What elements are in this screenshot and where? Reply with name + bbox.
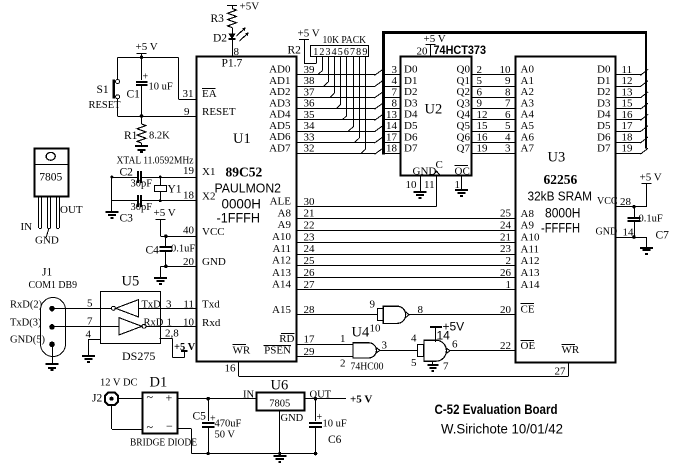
svg-text:D3: D3 [597,98,611,110]
svg-text:-FFFFH: -FFFFH [541,221,580,236]
wire AD1 from U1 to bus [297,86,375,88]
wire Q1 to A1 [471,86,516,88]
svg-text:RD: RD [279,333,294,345]
LED D2 [232,28,234,34]
ground U5 pin4 [82,355,95,357]
svg-text:P1.7: P1.7 [222,58,243,70]
svg-text:OUT: OUT [60,204,83,216]
wire EA pin31 [179,99,197,101]
svg-text:3: 3 [382,340,388,352]
svg-text:12 V DC: 12 V DC [100,378,138,389]
wire PSEN to U4a pin2 [297,356,352,358]
svg-text:9: 9 [370,299,376,311]
node GND(5) [49,342,55,348]
svg-text:AD2: AD2 [269,86,290,98]
inverter U5 TxD (points left) [116,300,139,317]
junction C1 bottom [140,114,144,118]
svg-text:23: 23 [500,243,512,255]
svg-text:2,8: 2,8 [165,328,179,340]
svg-text:U5: U5 [122,274,140,290]
wire Q4 to A4 [471,119,516,121]
wire D1 + out [178,398,256,400]
bus entry AD6 [375,137,383,143]
ground U6 [273,455,286,457]
wire J2 bottom [111,406,113,429]
resistor R1 [141,116,143,124]
ground J1 [46,363,59,365]
svg-text:AD6: AD6 [269,131,291,143]
wire AD6 from U1 to bus [297,142,375,144]
svg-text:4: 4 [411,333,417,345]
power +5V R2 [299,39,309,41]
svg-text:AD0: AD0 [269,64,291,76]
svg-text:8: 8 [392,98,398,110]
svg-text:3: 3 [505,143,511,155]
svg-text:C1: C1 [127,89,141,101]
sram U3 62256 box [516,57,616,363]
svg-text:BRIDGE DIODE: BRIDGE DIODE [130,437,197,448]
wire R2 pin3 to AD1 [328,57,330,82]
svg-text:A11: A11 [272,243,291,255]
svg-text:21: 21 [500,231,511,243]
svg-text:OC: OC [455,165,470,177]
svg-text:Q6: Q6 [457,131,471,143]
svg-text:15: 15 [477,120,489,132]
svg-text:74HC00: 74HC00 [351,362,384,373]
svg-text:U4: U4 [352,325,370,341]
svg-text:X2: X2 [202,190,215,202]
svg-text:J2: J2 [92,393,102,405]
svg-text:13: 13 [386,109,398,121]
wire AD4 from U1 to bus [297,119,375,121]
bus entry AD5 [375,126,383,132]
wire bus to U2 D4 [384,119,401,121]
svg-text:Q2: Q2 [457,86,470,98]
wire AD2 from U1 to bus [297,97,375,99]
svg-text:A12: A12 [272,255,291,267]
svg-text:30pF: 30pF [131,179,153,190]
svg-text:D6: D6 [404,131,418,143]
svg-text:2: 2 [477,64,483,76]
svg-text:C6: C6 [328,434,342,446]
wire +5V to VCC pin40 [160,219,162,236]
svg-text:8000H: 8000H [545,206,581,221]
svg-text:AD7: AD7 [269,143,291,155]
wire U3 D3 to bus [616,108,641,110]
svg-text:28: 28 [620,196,632,208]
svg-text:6: 6 [452,339,458,351]
ground R1 [135,145,148,147]
svg-text:X1: X1 [202,166,215,178]
gate U4a body [383,306,405,323]
svg-text:OE: OE [521,340,536,352]
svg-text:14: 14 [386,120,398,132]
wire Q0 to A0 [471,74,516,76]
svg-text:PSEN: PSEN [264,345,291,357]
svg-text:8.2K: 8.2K [149,131,170,142]
svg-text:−: − [166,419,173,433]
transistor 7805 package [35,149,69,197]
svg-text:0.1uF: 0.1uF [171,244,195,255]
wire AD5 from U1 to bus [297,131,375,133]
wire D2 to pin8 [232,39,234,56]
svg-text:8: 8 [234,46,240,58]
svg-text:C7: C7 [656,230,670,242]
svg-text:+5 V: +5 V [136,41,158,53]
svg-text:12: 12 [622,75,633,87]
svg-text:39: 39 [304,64,316,76]
wire A8 U1 to U3 [297,218,516,220]
wire bus to U2 D1 [384,86,401,88]
regulator U6 [257,393,305,411]
wire ALE to U2 pin11 [297,206,437,208]
capacitor C2 [137,171,139,183]
wire RD to U4a pin1 [297,344,352,346]
wire U3 D6 to bus [616,142,641,144]
svg-text:D4: D4 [597,109,611,121]
svg-text:A11: A11 [521,243,540,255]
svg-text:C4: C4 [146,245,160,257]
wire +5V stem [141,53,143,57]
wire U3 D7 to bus [616,153,641,155]
svg-text:GND: GND [202,256,226,268]
svg-text:32kB SRAM: 32kB SRAM [528,189,593,204]
wire WR rise to U3 pin27 [568,363,570,376]
ground U3 [640,247,653,249]
wire R2 pin4 to AD2 [334,57,336,93]
clock caret U2 [433,171,441,175]
bus entry AD1 [375,81,383,87]
svg-text:37: 37 [304,86,316,98]
svg-text:W.Sirichote 10/01/42: W.Sirichote 10/01/42 [441,421,563,437]
power +5V U4 [430,326,442,328]
svg-text:C-52 Evaluation Board: C-52 Evaluation Board [435,402,558,417]
wire A12 U1 to U3 [297,265,516,267]
svg-text:A4: A4 [521,109,535,121]
svg-text:WR: WR [233,344,251,356]
svg-text:10: 10 [406,179,418,191]
svg-text:22: 22 [304,219,315,231]
svg-text:32: 32 [304,143,315,155]
bus entry U3 D6 [640,137,648,143]
pin 4 U5 wire [89,339,101,341]
svg-text:S1: S1 [97,84,109,96]
svg-text:+5V: +5V [443,320,465,334]
svg-text:+5V: +5V [240,1,260,13]
wire A11 U1 to U3 [297,254,516,256]
wire U3 D2 to bus [616,97,641,99]
package legs [38,196,40,229]
resistor pack R2 [311,46,369,57]
pin 11 U2 stub (C) [436,176,438,207]
svg-text:Q7: Q7 [457,143,471,155]
power +5V R3 [227,5,237,7]
wire Q7 to A7 [471,153,516,155]
svg-text:5: 5 [87,298,93,310]
svg-text:ALE: ALE [270,196,292,208]
wire Q3 to A3 [471,108,516,110]
svg-text:19: 19 [477,143,489,155]
junction C5 bottom [207,452,210,455]
power +5V VCC [156,219,166,221]
svg-text:R1: R1 [124,130,138,142]
svg-text:15: 15 [622,98,634,110]
svg-text:12: 12 [477,109,488,121]
node RxD(2) [49,306,55,312]
ground xtal [105,211,118,213]
wire Q5 to A5 [471,131,516,133]
rs232 U5 DS275 box [101,292,161,344]
wire Q2 to A2 [471,97,516,99]
svg-text:17: 17 [622,120,634,132]
junction x1 left [111,176,114,179]
svg-text:D7: D7 [404,143,418,155]
wire bus to U2 D0 [384,74,401,76]
svg-text:6: 6 [505,109,511,121]
svg-text:RxD(2): RxD(2) [10,300,43,311]
svg-text:A9: A9 [521,220,535,232]
svg-text:D1: D1 [597,75,610,87]
svg-text:D1: D1 [404,75,417,87]
svg-text:R2: R2 [288,45,302,57]
svg-text:17: 17 [386,131,398,143]
wire bus to U2 D2 [384,97,401,99]
svg-text:9: 9 [477,98,483,110]
wire bus to U2 D6 [384,142,401,144]
svg-text:36: 36 [304,98,316,110]
svg-text:9: 9 [505,75,511,87]
svg-text:+5 V: +5 V [298,28,320,40]
wire OE from gate [450,350,516,352]
wire R2 pin2 to AD0 [322,57,324,71]
svg-text:D1: D1 [150,375,168,391]
wire R2 pin8 to AD6 [359,57,361,139]
svg-text:18: 18 [183,189,195,201]
wire gnd drop [160,266,162,278]
svg-text:U1: U1 [233,131,251,147]
wire TxD out to DB9 [52,308,111,310]
bus entry AD0 [375,69,383,75]
wire J2 to D1 [119,398,143,400]
wire R2 pin6 to AD4 [346,57,348,116]
svg-text:A14: A14 [272,279,291,291]
svg-text:31: 31 [183,88,194,100]
svg-text:1: 1 [340,333,346,345]
wire A13 U1 to U3 [297,277,516,279]
svg-text:A2: A2 [521,86,534,98]
wire A15 to gate U4c input [297,314,377,316]
svg-text:10: 10 [500,64,512,76]
bus vertical right [645,33,647,149]
svg-text:Q3: Q3 [457,98,471,110]
svg-text:~: ~ [147,390,154,404]
wire RxD in from DB9 [52,326,119,328]
svg-text:1: 1 [506,279,512,291]
pin 1 U2 stub (OC) [461,176,463,191]
svg-text:A15: A15 [272,304,291,316]
wire A14 U1 to U3 [297,289,516,291]
svg-text:4: 4 [332,47,337,58]
svg-text:RESET: RESET [202,106,236,118]
svg-text:Q4: Q4 [457,109,471,121]
svg-text:AD4: AD4 [269,109,291,121]
wire U3 D1 to bus [616,86,641,88]
svg-text:38: 38 [304,75,316,87]
svg-text:2: 2 [319,47,324,58]
svg-text:+5 V: +5 V [154,207,176,219]
wire WR pin16 drop [238,362,240,377]
resistor R3 [232,6,234,9]
svg-text:1: 1 [313,47,318,58]
svg-text:10 uF: 10 uF [149,82,173,93]
wire S1 bottom to reset row [117,99,119,116]
svg-text:A9: A9 [278,219,292,231]
svg-text:5: 5 [338,47,343,58]
svg-text:20: 20 [417,46,429,58]
svg-text:35: 35 [304,109,316,121]
wire R2 pin9 to AD7 [365,57,367,150]
bus entry U3 D3 [640,103,648,109]
svg-text:EA: EA [202,88,217,100]
wire AD7 from U1 to bus [297,153,375,155]
wire gnd drop U3 [646,237,648,247]
svg-text:Q1: Q1 [457,75,470,87]
svg-text:COM1 DB9: COM1 DB9 [29,280,78,291]
wire bottom rail [192,453,316,455]
svg-text:+5 V: +5 V [174,342,196,353]
svg-text:7: 7 [505,98,511,110]
svg-text:7: 7 [392,86,398,98]
capacitor C6 [314,452,318,456]
svg-text:A12: A12 [521,255,540,267]
svg-text:25: 25 [500,208,512,220]
bus entry U3 D2 [640,92,648,98]
wire U3 D5 to bus [616,131,641,133]
svg-text:8: 8 [418,304,424,316]
junction C1 top [140,56,144,60]
svg-text:J1: J1 [42,267,52,279]
svg-text:A8: A8 [521,208,535,220]
svg-text:IN: IN [21,221,33,233]
svg-text:Txd: Txd [202,299,220,311]
svg-text:16: 16 [622,109,634,121]
pin 10 U2 gnd stub [420,176,422,192]
svg-text:4: 4 [392,75,398,87]
ground U2 pin1 [455,189,468,191]
bus entry U3 D7 [640,148,648,154]
svg-text:62256: 62256 [544,172,578,187]
svg-text:4: 4 [86,329,92,341]
wire U3 D0 to bus [616,74,641,76]
capacitor C7 [632,205,636,209]
capacitor C4 [164,234,168,238]
svg-text:GND: GND [596,226,618,237]
svg-text:PAULMON2: PAULMON2 [215,181,282,196]
svg-text:AD1: AD1 [269,75,290,87]
svg-text:10K PACK: 10K PACK [323,34,367,46]
wire X2 row [112,200,137,202]
svg-text:A3: A3 [521,98,535,110]
wire CE from gate [409,314,515,316]
svg-text:C5: C5 [193,411,207,423]
svg-text:A0: A0 [521,64,535,76]
svg-text:IN: IN [243,390,254,401]
svg-text:U2: U2 [425,102,443,118]
bus entry U3 D5 [640,126,648,132]
svg-text:D5: D5 [404,120,418,132]
svg-text:16: 16 [225,363,237,375]
svg-text:CE: CE [521,303,535,315]
svg-text:34: 34 [304,120,316,132]
svg-text:9: 9 [362,47,367,58]
wire U6 gnd [279,410,281,456]
svg-text:6: 6 [344,47,349,58]
svg-text:11: 11 [424,179,435,191]
svg-text:4: 4 [505,131,511,143]
svg-text:10: 10 [370,323,382,335]
svg-text:GND(5): GND(5) [10,335,45,346]
svg-text:7: 7 [443,361,449,373]
svg-text:A10: A10 [272,231,291,243]
svg-text:+5 V: +5 V [350,394,372,406]
bus horizontal top [382,31,647,34]
wire R2 pin7 to AD5 [353,57,355,127]
svg-text:+5 V: +5 V [424,33,446,45]
svg-text:8: 8 [505,86,511,98]
svg-text:74HCT373: 74HCT373 [434,43,487,57]
wire xtal left vertical [111,177,113,212]
svg-text:Q0: Q0 [457,64,471,76]
svg-text:GND: GND [281,413,304,424]
svg-text:23: 23 [304,231,316,243]
wire bus to U2 D5 [384,131,401,133]
bus entry AD2 [375,92,383,98]
svg-text:D2: D2 [404,86,417,98]
svg-text:7: 7 [350,47,355,58]
wire A10 U1 to U3 [297,242,516,244]
bus entry U3 D4 [640,114,648,120]
bus vertical left [382,31,385,155]
svg-text:40: 40 [183,225,195,237]
svg-text:+: + [166,391,173,405]
wire D1 - out [178,428,192,430]
capacitor C1 [141,57,143,80]
svg-text:33: 33 [304,131,316,143]
svg-text:Rxd: Rxd [202,317,221,329]
svg-text:7: 7 [87,316,93,328]
svg-text:Y1: Y1 [168,184,182,196]
svg-text:30pF: 30pF [131,202,153,213]
svg-text:D2: D2 [597,86,610,98]
svg-text:D7: D7 [597,143,611,155]
svg-text:U3: U3 [548,150,566,166]
wire gnd db9 [52,344,54,364]
svg-text:17: 17 [304,334,316,346]
bus entry AD7 [375,148,383,154]
bus entry U3 D1 [640,81,648,87]
svg-text:0000H: 0000H [222,197,262,212]
svg-text:C: C [436,159,443,171]
gate U4c input box [418,345,424,357]
svg-text:0.1uF: 0.1uF [639,214,663,225]
pins 2,8 U5 wire [160,338,173,340]
svg-text:26: 26 [500,267,512,279]
svg-text:10 uF: 10 uF [323,419,347,430]
svg-text:DS275: DS275 [122,349,155,363]
svg-text:D5: D5 [597,120,611,132]
ground C4 [154,277,167,279]
svg-text:3: 3 [392,64,398,76]
